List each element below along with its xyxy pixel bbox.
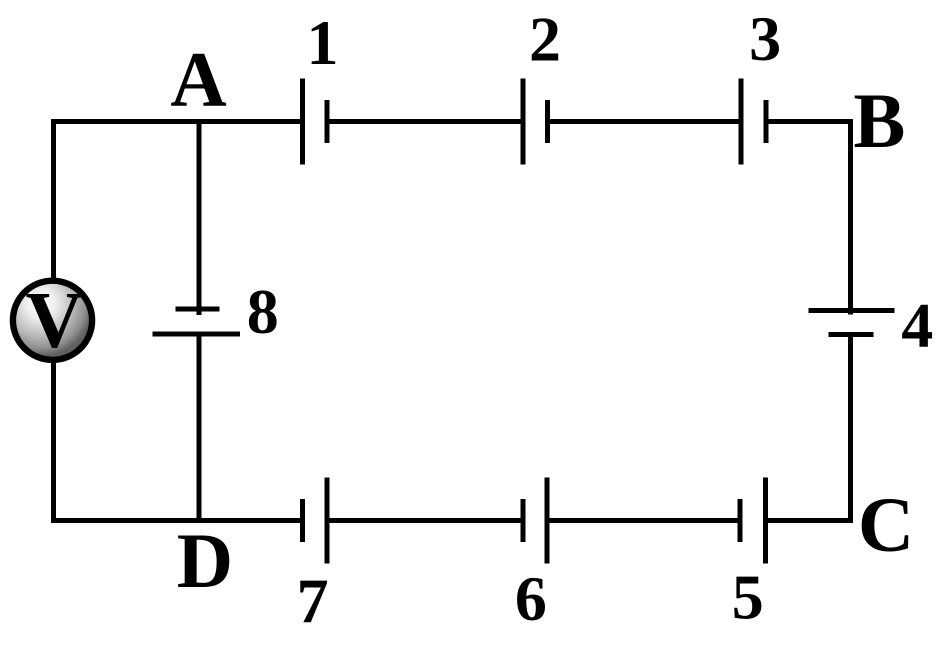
svg-text:1: 1 — [307, 7, 339, 78]
wire bottom segment cell7-cell6 — [327, 518, 523, 523]
wire right lower (cell 4 to C) — [848, 332, 853, 523]
wire middle upper (node A to cell 8) — [197, 119, 202, 315]
svg-text:D: D — [177, 517, 233, 604]
wire top segment A-left (corner to cell 1) — [51, 119, 303, 124]
wire top segment cell1-cell2 — [327, 119, 523, 124]
svg-text:3: 3 — [749, 3, 781, 74]
svg-text:B: B — [853, 77, 905, 164]
wire right upper (B to cell 4) — [848, 119, 853, 315]
wire bottom segment cell5-C — [765, 518, 853, 523]
svg-text:5: 5 — [732, 562, 764, 633]
battery cell 5 — [738, 478, 769, 564]
battery cell 1 — [300, 79, 330, 165]
wire left lower (voltmeter to D corner) — [51, 360, 56, 523]
wire left upper (A corner to voltmeter) — [51, 119, 56, 282]
battery cell 4 — [809, 308, 895, 337]
wire top segment cell2-cell3 — [547, 119, 742, 124]
svg-text:4: 4 — [901, 290, 933, 361]
svg-text:2: 2 — [529, 4, 561, 75]
voltmeter V — [10, 277, 96, 365]
wire top segment cell3-B — [766, 119, 854, 124]
svg-text:7: 7 — [297, 566, 329, 637]
svg-text:8: 8 — [247, 276, 279, 347]
battery cell 7 — [300, 478, 330, 564]
svg-text:6: 6 — [515, 563, 547, 634]
battery cell 3 — [739, 79, 769, 165]
wire middle lower (cell 8 to node D) — [197, 332, 202, 524]
battery cell 6 — [521, 478, 550, 564]
svg-text:A: A — [170, 36, 226, 123]
svg-text:V: V — [26, 277, 84, 365]
battery cell 8 — [153, 307, 241, 337]
wire bottom segment D-left (corner to cell 7) — [51, 518, 303, 523]
battery cell 2 — [521, 79, 551, 165]
svg-text:C: C — [858, 481, 914, 568]
wire bottom segment cell6-cell5 — [547, 518, 740, 523]
